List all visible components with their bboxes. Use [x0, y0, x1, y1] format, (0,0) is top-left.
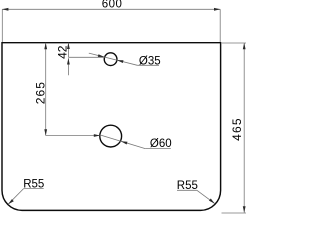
- arrow dim 600 right: [214, 8, 220, 11]
- arrow dim 265 top: [44, 43, 47, 49]
- arrow dim 600 left: [2, 8, 8, 11]
- leader underline D35: [137, 64, 159, 66]
- leader underline R55 left: [24, 188, 44, 190]
- svg-text:R55: R55: [23, 179, 44, 191]
- leader underline D60: [145, 148, 171, 150]
- arrow dim 465 bottom: [243, 206, 246, 212]
- dim 600 extension line right: [219, 9, 221, 42]
- hole circle D60: [100, 125, 122, 147]
- svg-text:465: 465: [230, 117, 244, 141]
- plate outline (600x465 panel, rounded bottom corners R55): [2, 43, 221, 211]
- leader line R55 right: [197, 190, 215, 203]
- arrow dim 465 top: [243, 43, 246, 49]
- svg-text:42: 42: [55, 45, 69, 59]
- leader line R55 left: [8, 189, 23, 205]
- arrow leader D35 right (points up-left at circle edge): [117, 60, 124, 63]
- dim 265 dimension line: [45, 43, 47, 136]
- dim 42 extension line to small hole center: [68, 56, 104, 58]
- dim 600 dimension line: [2, 8, 220, 10]
- leader line D60: [100, 135, 145, 149]
- hole circle D35: [104, 53, 117, 66]
- dim 600 extension line left: [1, 9, 3, 42]
- svg-text:Ø60: Ø60: [150, 138, 172, 150]
- dim 42 leader tail below: [67, 58, 69, 75]
- arrow leader D60 (points up-left at circle edge): [121, 141, 128, 144]
- arrow dim 42 bottom (outside, pointing up): [67, 58, 70, 64]
- dim 465 extension line top: [222, 42, 246, 44]
- svg-text:600: 600: [102, 0, 123, 11]
- arrow dim 42 top: [67, 43, 70, 49]
- arrow leader D35 left (points down-right at circle edge): [98, 54, 105, 57]
- arrow leader R55 right (points down-right at corner arc): [209, 199, 215, 204]
- arrow leader R55 left (points down-left at corner arc): [8, 199, 14, 204]
- dim 42 dimension line: [67, 43, 69, 58]
- dim 465 extension line bottom: [222, 212, 247, 214]
- svg-text:Ø35: Ø35: [139, 55, 161, 67]
- svg-text:R55: R55: [177, 180, 198, 192]
- leader line D35: [89, 53, 138, 65]
- dim 265 extension line to big hole center: [46, 135, 100, 137]
- dim 465 dimension line: [243, 43, 245, 213]
- arrow dim 265 bottom: [44, 129, 47, 135]
- svg-text:265: 265: [33, 81, 47, 104]
- arrow extension to D60 (points right at circle edge): [94, 134, 100, 137]
- leader underline R55 right: [177, 189, 197, 191]
